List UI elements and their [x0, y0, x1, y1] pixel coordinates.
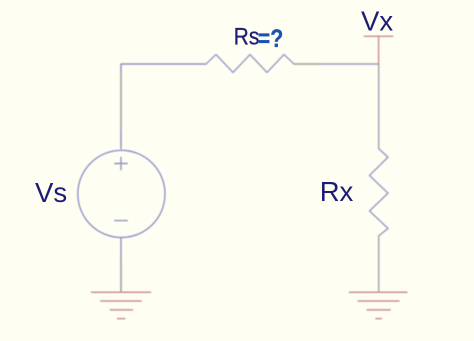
node Vx marker bar	[364, 35, 393, 37]
wire W6 gray lower segment	[120, 262, 122, 290]
svg-text:Vx: Vx	[361, 6, 393, 37]
wire W3 gray segment	[294, 63, 320, 65]
wire W6: source bottom to ground GND1	[120, 238, 122, 292]
wire W2: corner to Rs left lead	[121, 64, 206, 149]
svg-text:=?: =?	[258, 25, 284, 53]
voltage source V1 circle	[78, 150, 165, 237]
wire W5: Rx bottom to ground GND2	[378, 236, 380, 292]
ground GND2	[350, 292, 407, 318]
wire W3: Rs right lead to node Vx junction	[294, 63, 379, 65]
ground GND1	[92, 292, 151, 318]
voltage source V1 minus sign	[115, 220, 127, 222]
resistor Rx	[370, 149, 389, 236]
wire W4: junction down to Rx top	[378, 64, 380, 149]
svg-text:Rx: Rx	[320, 176, 354, 207]
resistor Rs	[206, 55, 294, 73]
node Vx marker stub	[378, 36, 380, 64]
svg-text:Rs: Rs	[234, 24, 259, 51]
voltage source V1 plus sign	[115, 157, 127, 169]
wire W1 gray mid-segment of left vertical	[120, 74, 122, 130]
svg-text:Vs: Vs	[35, 177, 67, 208]
